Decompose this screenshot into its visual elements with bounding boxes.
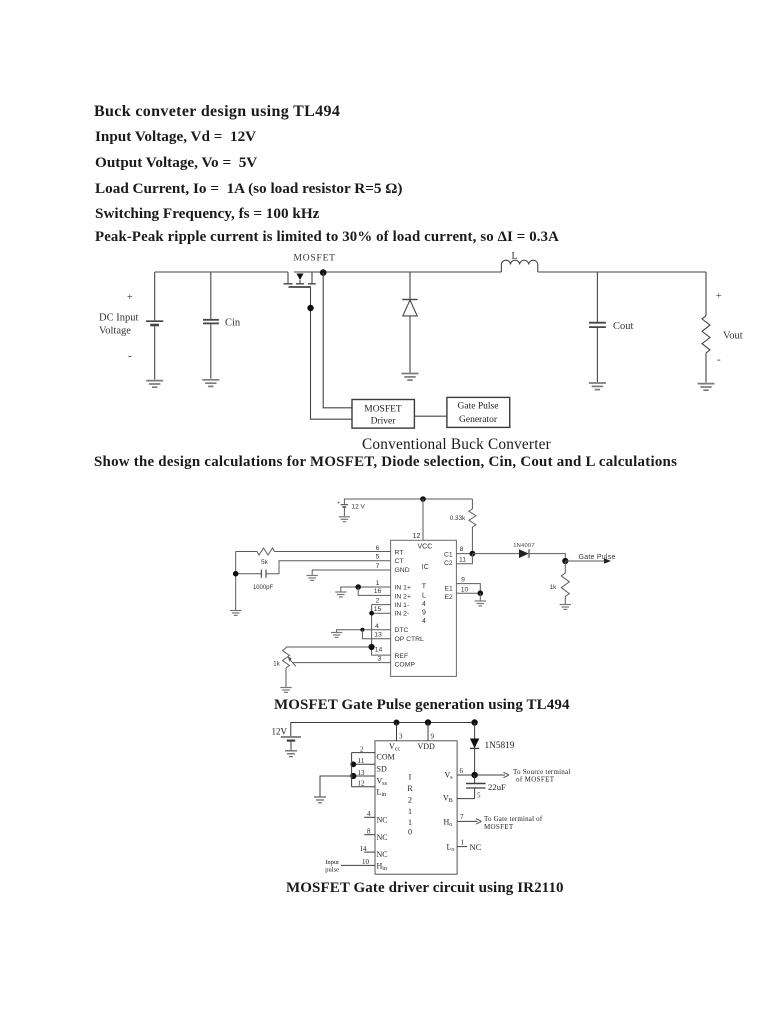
svg-text:+: + <box>716 291 722 302</box>
ground: pot bottom <box>280 688 291 693</box>
battery: 12 V source <box>341 505 349 517</box>
svg-text:COMP: COMP <box>395 661 416 668</box>
svg-text:MOSFET: MOSFET <box>484 823 514 831</box>
svg-text:0.33k: 0.33k <box>450 515 466 522</box>
svg-text:IN 2+: IN 2+ <box>395 593 411 600</box>
wire: left tie vertical <box>351 753 353 787</box>
svg-text:Input: Input <box>325 859 339 866</box>
ground: pin 4/13 <box>331 633 342 638</box>
svg-text:REF: REF <box>395 653 409 660</box>
show-design line <box>94 454 677 471</box>
svg-text:C1: C1 <box>444 551 453 558</box>
svg-text:NC: NC <box>377 833 388 842</box>
wire: pins 2-15-14 vertical tie <box>371 605 373 647</box>
wire: DTC pin 4 route <box>337 630 391 632</box>
node: source junction dot on top rail <box>320 269 327 276</box>
svg-text:12: 12 <box>413 533 421 540</box>
wire: IN1+ pin 1 route <box>341 587 391 592</box>
svg-text:+: + <box>127 292 133 303</box>
svg-text:To Gate terminal of: To Gate terminal of <box>484 815 543 823</box>
svg-text:5: 5 <box>376 554 380 561</box>
svg-text:12 V: 12 V <box>352 504 366 511</box>
svg-text:16: 16 <box>374 588 382 595</box>
node: vcc rail dot <box>420 496 426 502</box>
svg-text:8: 8 <box>460 546 464 553</box>
svg-text:L: L <box>512 251 518 262</box>
wire: E dot to ground <box>479 593 481 600</box>
svg-text:Driver: Driver <box>371 417 397 427</box>
ground: 12V battery <box>285 751 297 757</box>
svg-text:13: 13 <box>374 632 382 639</box>
ground: under DC source <box>146 381 163 388</box>
caption: IR2110 schematic <box>286 880 564 897</box>
spec line 5 <box>95 229 559 246</box>
arrow: to source terminal <box>504 772 510 777</box>
capacitor 1000pF <box>236 570 266 578</box>
svg-text:11: 11 <box>459 557 466 564</box>
wire: pin 9 drop <box>427 723 429 741</box>
svg-text:1: 1 <box>376 580 380 587</box>
wire: VB pin 5 <box>457 798 475 800</box>
wire: E2 pin 10 route <box>456 592 480 594</box>
caption: Conventional Buck Converter <box>362 436 551 454</box>
svg-text:13: 13 <box>358 769 366 777</box>
capacitor 22uF <box>466 775 486 799</box>
ground: pin 1/16 <box>335 592 346 597</box>
svg-text:-: - <box>128 350 132 362</box>
spec line 2 <box>95 154 257 172</box>
svg-text:SD: SD <box>377 765 387 774</box>
svg-text:2: 2 <box>360 746 364 754</box>
IC right pin labels <box>444 551 453 601</box>
svg-text:To Source terminal: To Source terminal <box>513 768 571 776</box>
svg-text:1N4007: 1N4007 <box>513 543 535 549</box>
svg-text:GND: GND <box>395 567 410 574</box>
svg-text:15: 15 <box>374 606 382 613</box>
inductor L <box>501 260 537 272</box>
IC U2 IR2110 box <box>375 741 457 874</box>
wire: Hin pin 10 <box>341 864 375 866</box>
svg-text:I: I <box>409 773 412 782</box>
svg-text:1: 1 <box>408 818 412 827</box>
node: pin3 rail dot <box>394 720 400 726</box>
svg-text:RT: RT <box>395 550 404 557</box>
battery: DC input source <box>146 272 163 380</box>
IC U1 TL494 box <box>391 540 457 676</box>
wire: NC pin 8 <box>364 834 375 836</box>
svg-text:DC Input: DC Input <box>99 313 138 324</box>
svg-text:1k: 1k <box>273 661 281 668</box>
svg-text:Vcc: Vcc <box>389 742 400 753</box>
svg-text:Vs: Vs <box>445 771 454 782</box>
svg-text:pulse: pulse <box>325 867 339 874</box>
wire: COMP pin 3 route <box>292 662 391 664</box>
wire: CT pin 5 route <box>267 561 391 574</box>
svg-text:22uF: 22uF <box>488 782 506 792</box>
svg-text:-: - <box>717 354 721 366</box>
wire: C1 pin 8 line <box>456 553 475 555</box>
svg-text:NC: NC <box>377 816 388 825</box>
ground: E1/E2 <box>475 601 486 606</box>
svg-text:Lo: Lo <box>447 843 455 854</box>
capacitor Cin <box>203 272 219 379</box>
svg-text:Voltage: Voltage <box>99 326 131 337</box>
svg-text:Gate Pulse: Gate Pulse <box>579 554 616 561</box>
wire: REF pin 14 route <box>286 647 391 655</box>
svg-text:E2: E2 <box>445 594 454 601</box>
svg-text:1N5819: 1N5819 <box>485 741 515 751</box>
ground: under Vout <box>698 384 715 391</box>
svg-text:10: 10 <box>461 586 469 593</box>
svg-text:Vss: Vss <box>377 777 388 788</box>
wire: COM pin 2 <box>352 752 375 754</box>
svg-text:OP CTRL: OP CTRL <box>395 636 425 643</box>
wire: Ho pin 7 <box>457 820 477 822</box>
svg-text:VDD: VDD <box>418 742 436 751</box>
wire: OP CTRL pin 13 route <box>362 630 390 639</box>
arrow: gate pulse out <box>565 558 611 564</box>
svg-text:14: 14 <box>360 845 368 853</box>
title <box>94 103 340 121</box>
node: Vs dot <box>471 772 477 778</box>
wire: 12V top rail <box>291 723 475 737</box>
svg-text:4: 4 <box>422 601 426 608</box>
node: DTC dot <box>360 628 364 632</box>
battery: 12V source <box>281 737 301 750</box>
svg-text:of MOSFET: of MOSFET <box>516 776 555 784</box>
svg-text:7: 7 <box>376 563 380 570</box>
transistor MOSFET symbol <box>284 272 316 287</box>
node: pin1 dot <box>355 584 361 590</box>
spec line 3 <box>95 180 403 198</box>
svg-text:COM: COM <box>377 753 395 762</box>
svg-text:1000pF: 1000pF <box>253 585 274 591</box>
svg-text:Cout: Cout <box>613 321 634 332</box>
wire: SD pin 11 <box>352 763 375 765</box>
wire: source junction down to driver <box>323 273 352 408</box>
svg-text:IN 2-: IN 2- <box>395 611 410 618</box>
svg-text:12: 12 <box>358 780 366 788</box>
wire: gate down to driver <box>311 288 353 419</box>
wire: RT pin 6 line <box>275 551 391 553</box>
svg-text:5: 5 <box>477 792 481 800</box>
arrow: to gate terminal <box>476 819 482 824</box>
svg-text:1: 1 <box>461 839 465 847</box>
svg-text:MOSFET: MOSFET <box>364 405 402 415</box>
svg-text:NC: NC <box>377 850 388 859</box>
wire: E1 pin 9 route <box>456 584 480 594</box>
svg-text:IC: IC <box>422 564 429 571</box>
resistor Vout load <box>702 272 710 383</box>
wire: GND pin 7 route <box>312 570 390 575</box>
svg-text:R: R <box>407 784 413 793</box>
svg-text:Cin: Cin <box>225 318 241 329</box>
svg-text:+: + <box>337 501 340 507</box>
node: pin8 dot <box>470 551 476 557</box>
wire: diode to output node <box>529 554 565 561</box>
caption: TL494 schematic <box>274 697 570 714</box>
wire: NC pin 4 <box>364 816 375 818</box>
wire: driver to generator <box>414 415 447 417</box>
svg-text:VCC: VCC <box>418 543 433 550</box>
svg-text:0: 0 <box>408 828 412 837</box>
wire: pin12 VCC drop <box>422 499 424 540</box>
svg-text:8: 8 <box>367 828 371 836</box>
ground: left rail <box>230 611 241 616</box>
svg-text:11: 11 <box>358 757 365 765</box>
svg-text:10: 10 <box>362 858 370 866</box>
svg-text:7: 7 <box>460 813 464 821</box>
svg-text:IN 1-: IN 1- <box>395 602 410 609</box>
wire: Vs pin 6 <box>457 774 505 776</box>
ground: under Cout <box>589 383 606 390</box>
diode 1N5819 <box>470 723 479 774</box>
wire: dot to diode <box>472 553 519 555</box>
box: Gate Pulse Generator <box>447 397 510 427</box>
wire: +12V top rail <box>344 499 472 504</box>
left pin numbers <box>374 545 383 663</box>
svg-text:MOSFET: MOSFET <box>294 254 336 264</box>
spec line 1 <box>95 128 256 146</box>
svg-text:NC: NC <box>470 842 482 852</box>
svg-text:9: 9 <box>461 577 465 584</box>
svg-text:12V: 12V <box>272 727 288 737</box>
svg-text:E1: E1 <box>445 586 454 593</box>
IC left pin labels <box>395 550 425 669</box>
svg-text:VB: VB <box>443 794 453 805</box>
svg-text:3: 3 <box>399 733 403 741</box>
svg-text:Hin: Hin <box>377 862 387 873</box>
node: pin9 rail dot <box>425 719 431 725</box>
potentiometer 1k <box>283 647 297 687</box>
svg-text:2: 2 <box>376 597 380 604</box>
node: gate wire dot <box>307 305 313 311</box>
box: MOSFET Driver <box>352 400 414 429</box>
node: Vss dot <box>350 773 356 779</box>
svg-text:9: 9 <box>422 610 426 617</box>
wire: Vss pin 13 <box>352 775 375 777</box>
IC vertical text IR2110 <box>407 773 413 837</box>
wire: IN1- pin 2 route <box>372 604 391 606</box>
IC vertical text TL494 <box>422 584 427 626</box>
svg-text:4: 4 <box>375 623 379 630</box>
svg-text:T: T <box>422 584 427 591</box>
wire: Lin pin 12 <box>352 786 375 788</box>
ground: under Cin <box>202 380 219 387</box>
svg-text:DTC: DTC <box>395 627 409 634</box>
ground: 12V battery <box>339 517 350 522</box>
svg-text:14: 14 <box>375 647 383 654</box>
diode: freewheeling <box>402 272 417 373</box>
ground: output 1k <box>560 605 571 610</box>
svg-text:Ho: Ho <box>444 818 453 829</box>
svg-text:1: 1 <box>408 807 412 816</box>
resistor 0.33k <box>469 499 476 554</box>
svg-text:4: 4 <box>422 618 426 625</box>
wire: left vertical rail <box>235 552 237 611</box>
wire: top rail left of MOSFET <box>155 271 288 273</box>
svg-text:6: 6 <box>376 545 380 552</box>
svg-text:4: 4 <box>367 810 371 818</box>
node: pin15 dot <box>369 611 374 616</box>
resistor 5k <box>236 548 275 555</box>
svg-text:1k: 1k <box>550 584 558 591</box>
wire: Vss to ground stub <box>320 776 353 797</box>
ground: pin 7 <box>307 576 318 581</box>
node: gate pulse dot <box>562 558 568 564</box>
resistor 1k (output) <box>561 561 569 604</box>
diode 1N4007 <box>519 549 529 558</box>
node: diode rail dot <box>471 719 477 725</box>
svg-text:5k: 5k <box>261 559 269 566</box>
wire: top rail inductor to right corner <box>538 271 706 273</box>
wire: top rail MOSFET to inductor <box>294 271 501 273</box>
svg-text:CT: CT <box>395 558 404 565</box>
svg-text:Gate Pulse: Gate Pulse <box>458 402 499 412</box>
wire: IN2+ pin 16 route <box>358 587 390 595</box>
svg-text:Vout: Vout <box>723 331 743 342</box>
node: E1/E2 dot <box>478 590 484 596</box>
svg-text:Lin: Lin <box>377 788 387 799</box>
wire: NC pin 14 <box>364 851 375 853</box>
svg-text:2: 2 <box>408 796 412 805</box>
node: SD dot <box>350 761 356 767</box>
svg-text:C2: C2 <box>444 560 453 567</box>
svg-text:9: 9 <box>431 733 435 741</box>
svg-text:L: L <box>422 593 426 600</box>
capacitor Cout <box>589 272 606 382</box>
svg-text:6: 6 <box>460 767 464 775</box>
spec line 4 <box>95 205 319 223</box>
right pin numbers <box>459 546 469 593</box>
svg-text:3: 3 <box>378 656 382 663</box>
ground: Vss <box>314 797 326 803</box>
node: rail-cap junction <box>233 571 239 577</box>
svg-text:IN 1+: IN 1+ <box>395 585 411 592</box>
node: pin14 dot <box>369 644 375 650</box>
wire: IN2- pin 15 route <box>372 612 391 614</box>
wire: pin 3 drop <box>396 723 398 741</box>
wire: Lo pin 1 <box>457 846 467 848</box>
svg-text:Generator: Generator <box>459 415 498 425</box>
ground: under diode <box>402 374 419 381</box>
wire: C2 pin 11 route <box>456 554 472 564</box>
